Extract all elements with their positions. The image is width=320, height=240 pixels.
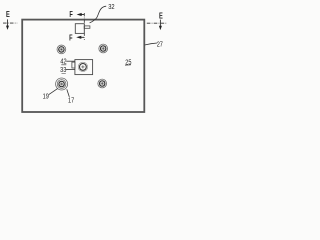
svg-text:33: 33 <box>60 67 67 75</box>
svg-text:19: 19 <box>43 93 50 101</box>
svg-text:F: F <box>69 11 72 19</box>
svg-text:27: 27 <box>157 41 164 49</box>
svg-text:E: E <box>159 11 163 20</box>
svg-text:F: F <box>69 35 72 43</box>
svg-text:17: 17 <box>68 97 75 105</box>
svg-text:E: E <box>6 10 10 19</box>
svg-text:32: 32 <box>108 4 115 12</box>
